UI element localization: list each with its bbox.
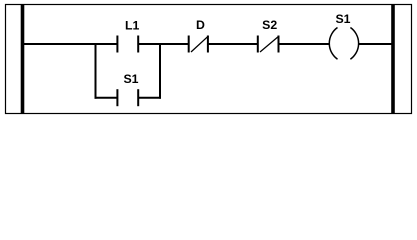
right power rail: [391, 5, 395, 114]
svg-text:L1: L1: [125, 19, 140, 33]
wire S2 to coil: [279, 43, 330, 45]
branch wire right: [138, 97, 161, 99]
svg-text:D: D: [196, 18, 205, 32]
contact S1 (branch): [117, 89, 138, 106]
branch vertical left: [95, 43, 97, 99]
svg-text:S1: S1: [335, 12, 350, 26]
wire L1 to D: [138, 43, 189, 45]
coil S1: [329, 28, 358, 60]
svg-text:S2: S2: [262, 18, 277, 32]
contact S2 (NC): [258, 36, 279, 53]
svg-text:S1: S1: [123, 72, 138, 86]
wire rail to L1: [23, 43, 117, 45]
left power rail: [21, 5, 25, 114]
contact L1: [117, 36, 138, 53]
branch vertical right: [159, 43, 161, 99]
border frame: [6, 5, 412, 114]
branch wire left: [95, 97, 118, 99]
contact D (NC): [189, 36, 209, 53]
wire D to S2: [208, 43, 258, 45]
wire coil to right rail: [359, 43, 392, 45]
